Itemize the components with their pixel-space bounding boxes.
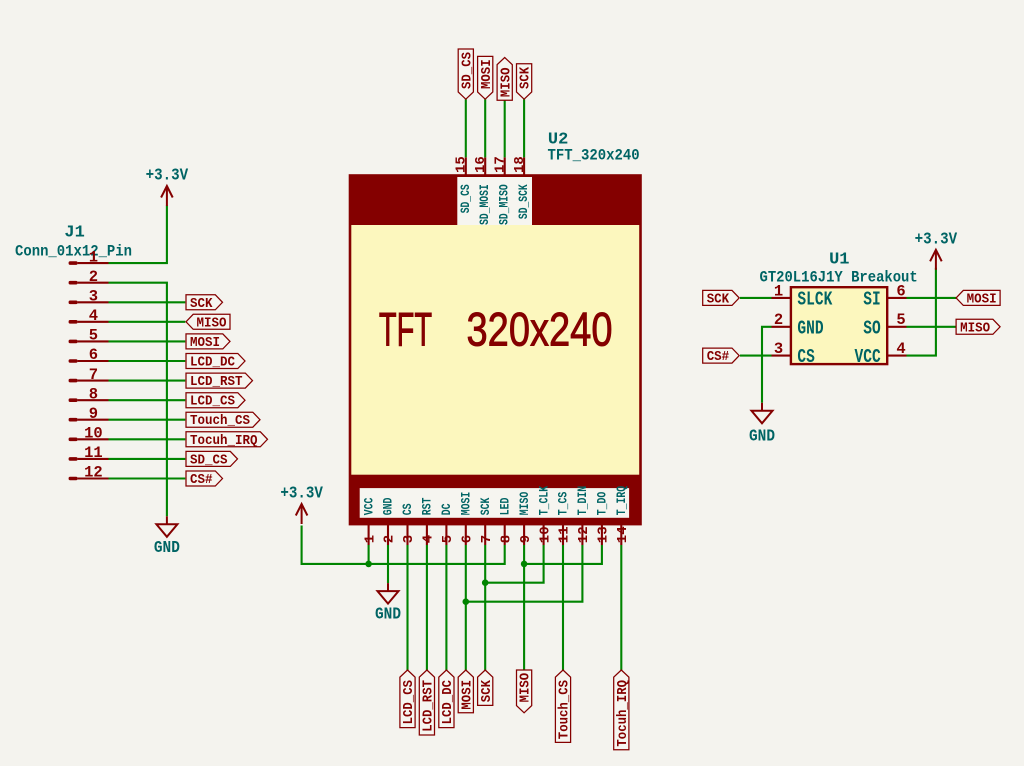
net label Touch_CS (555, 670, 570, 742)
svg-text:11: 11 (557, 526, 573, 543)
svg-text:Conn_01x12_Pin: Conn_01x12_Pin (15, 243, 132, 261)
wire pin6 MOSI down (465, 545, 467, 670)
wire pin17 to MISO label (504, 100, 506, 157)
J1 pin 3 (69, 301, 78, 305)
wire +3.3V rail to pin1 pin8 (302, 526, 505, 564)
svg-text:1: 1 (362, 535, 378, 543)
svg-text:SCK: SCK (190, 296, 213, 312)
U2 pin 3 CS (406, 524, 408, 545)
svg-text:3: 3 (89, 288, 98, 306)
svg-text:LCD_RST: LCD_RST (190, 374, 243, 390)
svg-text:6: 6 (460, 535, 476, 543)
svg-text:SLCK: SLCK (797, 288, 832, 310)
U2 pin 11 T_CS (562, 524, 564, 545)
svg-text:T_CS: T_CS (557, 491, 571, 515)
svg-text:5: 5 (896, 311, 905, 329)
U2 pin 6 MOSI (465, 524, 467, 545)
svg-text:17: 17 (493, 156, 509, 173)
wire pin2 GND down (387, 545, 389, 583)
svg-text:MOSI: MOSI (460, 492, 474, 516)
net label Tocuh_IRQ (186, 432, 268, 447)
net label Tocuh_IRQ (614, 670, 629, 750)
J1 pin 10 (69, 438, 78, 442)
svg-text:LCD_CS: LCD_CS (190, 394, 235, 410)
svg-text:10: 10 (537, 526, 553, 543)
U1 pin 3 CS (772, 355, 791, 357)
U1 pin 1 SLCK (772, 297, 791, 299)
svg-text:2: 2 (89, 268, 98, 286)
J1 pin 9 (69, 418, 78, 422)
svg-text:10: 10 (84, 425, 103, 443)
wire J1 pin7 to label (109, 380, 186, 382)
svg-text:J1: J1 (64, 223, 84, 242)
svg-text:TFT: TFT (379, 303, 432, 356)
svg-text:VCC: VCC (855, 346, 881, 368)
svg-text:MISO: MISO (518, 491, 532, 515)
svg-text:SI: SI (863, 288, 880, 310)
wire J1 pin5 to label (109, 340, 186, 342)
svg-text:2: 2 (382, 535, 398, 543)
U2 pin 18 SD_SCK (523, 157, 525, 175)
svg-text:9: 9 (518, 535, 534, 543)
svg-text:Tocuh_IRQ: Tocuh_IRQ (190, 433, 258, 449)
ground symbol below U1 (752, 403, 773, 424)
svg-text:MISO: MISO (960, 320, 990, 336)
svg-text:GND: GND (797, 317, 823, 339)
power symbol +3.3V at U1 (930, 250, 942, 270)
svg-text:MOSI: MOSI (479, 59, 495, 89)
svg-text:4: 4 (421, 535, 437, 543)
net label MOSI (956, 290, 1000, 305)
svg-text:T_DO: T_DO (596, 491, 610, 515)
wire J1 pin12 to label (109, 477, 186, 479)
svg-text:2: 2 (774, 311, 783, 329)
wire pin5 to label (445, 545, 447, 670)
U2 bottom dark band (350, 475, 641, 524)
junction SCK T_CLK (482, 579, 489, 586)
U1 pin 4 VCC (887, 355, 906, 357)
svg-text:CS#: CS# (190, 472, 213, 488)
svg-text:U1: U1 (829, 251, 849, 270)
svg-text:SD_CS: SD_CS (190, 452, 228, 468)
J1 pin 6 (69, 359, 78, 363)
svg-text:+3.3V: +3.3V (915, 230, 958, 249)
svg-text:+3.3V: +3.3V (146, 166, 189, 185)
svg-text:6: 6 (896, 282, 905, 300)
net label SD_CS (186, 451, 238, 466)
svg-text:SD_MISO: SD_MISO (498, 184, 512, 225)
wire +3.3V to U1 pin4 VCC (907, 268, 936, 356)
svg-text:SCK: SCK (479, 497, 493, 515)
svg-text:CS: CS (401, 503, 415, 515)
power symbol +3.3V at J1 (161, 186, 173, 206)
wire pin15 to SD_CS label (465, 99, 467, 157)
junction pin1 VCC at +3.3V rail (365, 561, 372, 568)
svg-text:GND: GND (382, 497, 396, 515)
net label SD_CS (458, 49, 473, 99)
svg-text:LCD_RST: LCD_RST (421, 680, 437, 732)
svg-text:CS#: CS# (707, 349, 730, 365)
wire J1 pin2 to GND (109, 283, 167, 517)
svg-text:SD_CS: SD_CS (459, 52, 475, 89)
svg-text:MISO: MISO (518, 672, 534, 702)
net label LCD_CS (186, 393, 245, 408)
J1 pin 1 (69, 261, 78, 265)
svg-text:18: 18 (512, 156, 528, 173)
U2 pin 2 GND (387, 524, 389, 545)
U2 pin 5 DC (445, 524, 447, 545)
wire J1 pin6 to label (109, 360, 186, 362)
ground symbol below J1 (156, 516, 177, 537)
svg-text:DC: DC (440, 503, 454, 515)
svg-text:MOSI: MOSI (459, 680, 475, 710)
wire J1 pin3 to label (109, 301, 186, 303)
svg-text:SD_SCK: SD_SCK (517, 184, 531, 219)
svg-text:12: 12 (84, 464, 103, 482)
svg-text:TFT_320x240: TFT_320x240 (548, 147, 640, 165)
net label MOSI (458, 670, 473, 713)
svg-text:4: 4 (89, 307, 98, 325)
svg-text:14: 14 (615, 526, 631, 543)
wire pin16 to MOSI label (484, 99, 486, 157)
svg-text:LCD_DC: LCD_DC (190, 355, 235, 371)
wire J1 pin4 to label (109, 321, 186, 323)
wire pin9 MISO down (523, 545, 525, 670)
wire U1 pin5 SO to MISO label (907, 326, 957, 328)
net label SCK (517, 64, 532, 99)
J1 pin 8 (69, 398, 78, 402)
svg-text:T_DIN: T_DIN (576, 486, 590, 516)
net label Touch_CS (186, 412, 260, 427)
J1 pin 5 (69, 340, 78, 344)
U2 pin 12 T_DIN (581, 524, 583, 545)
U2 pin 4 RST (426, 524, 428, 545)
svg-text:8: 8 (89, 385, 98, 403)
U2 pin 1 VCC (368, 524, 370, 545)
svg-text:4: 4 (896, 340, 905, 358)
svg-text:1: 1 (774, 282, 783, 300)
wire pin10 T_CLK to SCK net (485, 545, 543, 583)
svg-text:LCD_DC: LCD_DC (440, 680, 456, 725)
U2 pin 7 SCK (484, 524, 486, 545)
wire J1 pin1 to +3.3V (109, 206, 167, 264)
power symbol +3.3V at U2 bottom (296, 504, 308, 524)
svg-text:+3.3V: +3.3V (280, 484, 323, 503)
svg-text:SCK: SCK (479, 680, 495, 703)
U2 top dark band (350, 176, 641, 226)
svg-text:16: 16 (473, 156, 489, 173)
J1 pin 2 (69, 281, 78, 285)
svg-text:CS: CS (797, 346, 815, 368)
wire U1 pin6 SI to MOSI label (907, 297, 957, 299)
net label LCD_DC (186, 354, 245, 369)
svg-text:T_CLK: T_CLK (537, 485, 551, 515)
svg-text:12: 12 (576, 526, 592, 543)
U1 pin 5 SO (887, 326, 906, 328)
svg-text:8: 8 (498, 535, 514, 543)
net label SCK (186, 295, 223, 310)
ground symbol below U2 (378, 583, 399, 604)
net label LCD_RST (186, 373, 253, 388)
U2 pin 10 T_CLK (543, 524, 545, 545)
svg-text:15: 15 (454, 156, 470, 173)
svg-text:GND: GND (749, 426, 775, 445)
svg-text:Touch_CS: Touch_CS (557, 680, 573, 740)
svg-text:9: 9 (89, 405, 98, 423)
IC U1 body (791, 287, 887, 364)
svg-text:GND: GND (375, 605, 401, 624)
TFT module U2 body (350, 176, 641, 525)
net label SCK (703, 290, 740, 305)
wire pin14 T_IRQ down (620, 545, 622, 670)
wire U1 pin2 to GND (762, 327, 772, 403)
svg-text:LCD_CS: LCD_CS (401, 680, 417, 725)
junction MOSI T_DIN (463, 598, 470, 605)
svg-text:MOSI: MOSI (190, 335, 220, 351)
wire pin4 to label (426, 545, 428, 670)
net label CS# (703, 348, 740, 363)
net label LCD_CS (400, 670, 415, 728)
J1 pin 12 (69, 477, 78, 481)
net label MISO (497, 58, 512, 101)
wire J1 pin11 to label (109, 458, 186, 460)
net label MISO (956, 319, 1000, 334)
svg-text:MISO: MISO (498, 67, 514, 97)
svg-text:Tocuh_IRQ: Tocuh_IRQ (615, 680, 631, 747)
svg-text:SCK: SCK (707, 291, 730, 307)
U2 pin 15 SD_CS (465, 157, 467, 175)
U2 top pin-name box (457, 177, 532, 225)
net label LCD_RST (419, 670, 434, 735)
U2 pin 13 T_DO (601, 524, 603, 545)
net label CS# (186, 471, 223, 486)
U2 pin 9 MISO (523, 524, 525, 545)
svg-text:Touch_CS: Touch_CS (190, 413, 250, 429)
U1 pin 6 SI (887, 297, 906, 299)
svg-text:5: 5 (440, 535, 456, 543)
svg-text:MOSI: MOSI (967, 291, 997, 307)
wire J1 pin8 to label (109, 399, 186, 401)
net label SCK (478, 670, 493, 705)
U2 pin 16 SD_MOSI (484, 157, 486, 175)
wire pin18 to SCK label (523, 99, 525, 157)
svg-text:7: 7 (479, 535, 495, 543)
svg-text:T_IRQ: T_IRQ (615, 485, 629, 515)
svg-text:320x240: 320x240 (467, 303, 613, 356)
svg-text:1: 1 (89, 248, 98, 266)
U1 pin 2 GND (772, 326, 791, 328)
svg-text:7: 7 (89, 366, 98, 384)
net label LCD_DC (439, 670, 454, 728)
net label MOSI (478, 56, 493, 99)
net label MOSI (186, 334, 230, 349)
svg-text:RST: RST (421, 497, 435, 515)
wire pin13 T_DO to MISO net (524, 545, 602, 564)
svg-text:3: 3 (401, 535, 417, 543)
svg-text:SO: SO (863, 317, 881, 339)
wire J1 pin10 to label (109, 438, 186, 440)
svg-text:SD_MOSI: SD_MOSI (478, 184, 492, 225)
svg-text:MISO: MISO (197, 315, 227, 331)
U2 outline (350, 176, 641, 525)
wire SCK label to U1 pin1 (740, 297, 772, 299)
svg-text:VCC: VCC (362, 497, 376, 515)
svg-text:6: 6 (89, 346, 98, 364)
U2 bottom pin-name box (360, 488, 629, 518)
U2 pin 8 LED (504, 524, 506, 545)
wire pin12 T_DIN to MOSI net (466, 545, 583, 602)
J1 pin 4 (69, 320, 78, 324)
net label MISO (186, 314, 230, 329)
J1 pin 11 (69, 457, 78, 461)
svg-text:GND: GND (154, 538, 180, 557)
U2 pin 17 SD_MISO (504, 157, 506, 175)
svg-text:SD_CS: SD_CS (459, 184, 473, 213)
svg-text:3: 3 (774, 340, 783, 358)
wire pin3 to label (406, 545, 408, 670)
wire pin1 VCC down (368, 545, 370, 564)
wire J1 pin9 to label (109, 419, 186, 421)
net label MISO (517, 670, 532, 713)
svg-text:GT20L16J1Y Breakout: GT20L16J1Y Breakout (760, 269, 918, 287)
U2 pin 14 T_IRQ (620, 524, 622, 545)
wire pin11 Touch_CS down (562, 545, 564, 670)
J1 pin 7 (69, 379, 78, 383)
wire pin7 SCK down (484, 545, 486, 670)
junction MISO T_DO (521, 561, 528, 568)
svg-text:11: 11 (84, 444, 103, 462)
svg-text:5: 5 (89, 327, 98, 345)
svg-text:LED: LED (498, 497, 512, 515)
svg-text:SCK: SCK (518, 66, 534, 89)
svg-text:13: 13 (596, 526, 612, 543)
wire CS# label to U1 pin3 (740, 355, 772, 357)
